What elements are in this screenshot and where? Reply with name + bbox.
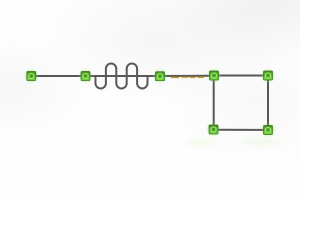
value label (orange dashes under wire N3-N4) bbox=[171, 77, 204, 79]
node N5 bbox=[260, 68, 276, 84]
wire from node N1 to node N2 bbox=[31, 75, 86, 77]
node N4 bbox=[206, 68, 222, 84]
wire baseline from node N2 to node N3 (through coil) bbox=[86, 75, 160, 77]
resistor R1 (coiled-wire meander between N2 and N3) bbox=[96, 63, 148, 88]
wire from node N4 to node N5 bbox=[214, 75, 268, 77]
wire from node N3 to node N4 bbox=[160, 75, 215, 77]
faint green reflection under bottom-left node N6 bbox=[184, 139, 218, 145]
wire from node N6 to node N7 (bottom) bbox=[214, 129, 269, 131]
node N2 bbox=[78, 68, 94, 84]
wire from node N5 down to node N7 bbox=[267, 76, 269, 130]
node N7 bbox=[260, 122, 276, 138]
wire from node N4 down to node N6 bbox=[213, 76, 215, 130]
faint green reflection under bottom-right node N7 bbox=[242, 139, 282, 146]
node N1 bbox=[23, 68, 39, 84]
node N3 bbox=[152, 68, 168, 84]
node N6 bbox=[206, 122, 222, 138]
